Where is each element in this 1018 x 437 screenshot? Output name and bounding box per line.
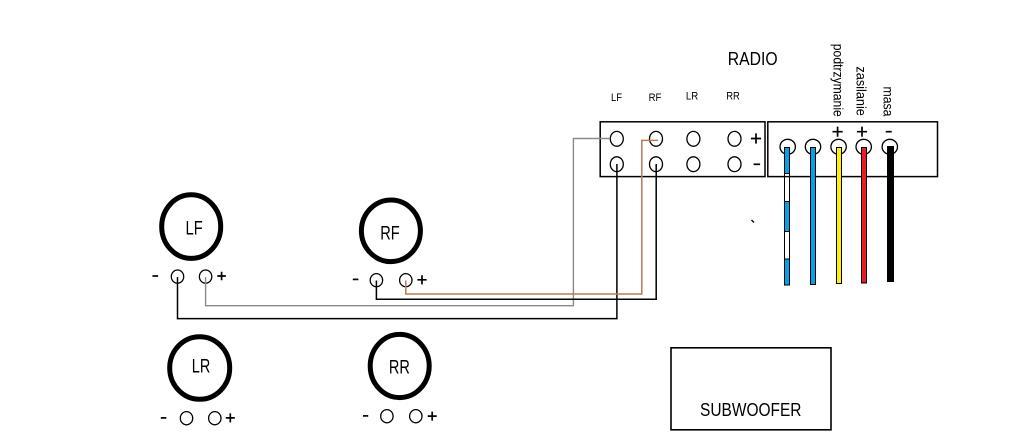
svg-text:masa: masa: [881, 87, 897, 117]
svg-text:RR: RR: [726, 90, 740, 102]
svg-text:RF: RF: [380, 224, 400, 245]
svg-text:LR: LR: [192, 356, 211, 377]
svg-text:LF: LF: [186, 218, 203, 239]
svg-text:RADIO: RADIO: [728, 48, 778, 69]
svg-text:RF: RF: [649, 92, 662, 104]
svg-text:LF: LF: [611, 92, 622, 104]
svg-text:podtrzymanie: podtrzymanie: [831, 44, 847, 117]
svg-text:zasilanie: zasilanie: [853, 66, 869, 116]
svg-text:SUBWOOFER: SUBWOOFER: [700, 400, 802, 420]
svg-text:RR: RR: [389, 358, 410, 379]
svg-text:LR: LR: [686, 90, 698, 102]
